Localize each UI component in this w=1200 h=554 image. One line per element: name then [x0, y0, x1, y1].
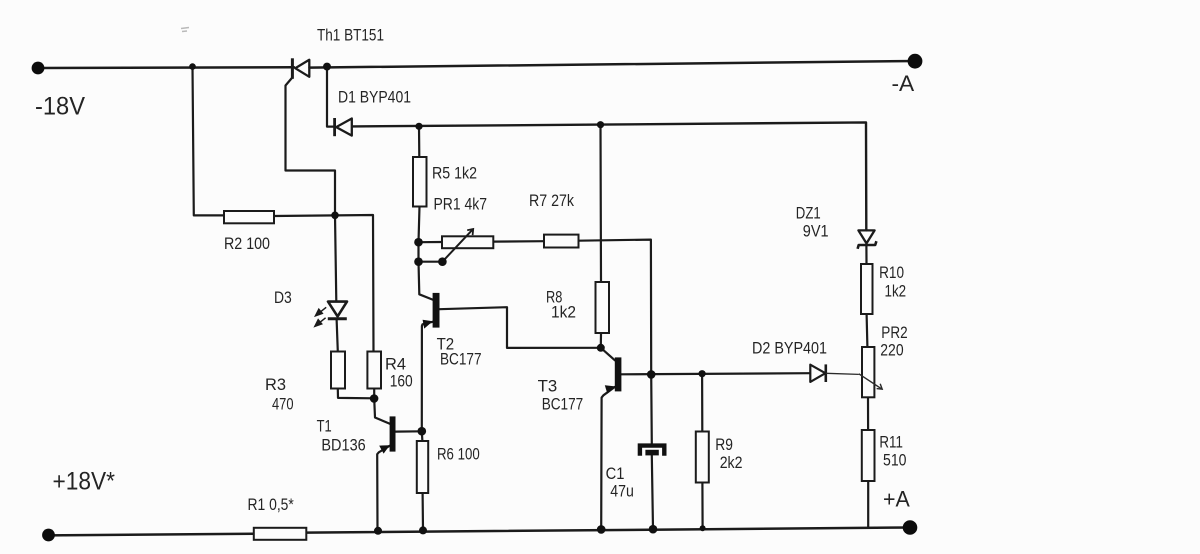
svg-text:R5 1k2: R5 1k2	[432, 164, 477, 183]
svg-text:-A: -A	[892, 71, 915, 96]
svg-text:DZ1: DZ1	[796, 204, 821, 223]
svg-text:PR1 4k7: PR1 4k7	[434, 195, 488, 214]
svg-text:1k2: 1k2	[551, 303, 576, 322]
svg-text:470: 470	[272, 395, 294, 414]
svg-text:R10: R10	[879, 263, 904, 282]
svg-text:47u: 47u	[610, 482, 634, 501]
svg-text:2k2: 2k2	[720, 453, 743, 472]
svg-text:PR2: PR2	[881, 323, 907, 342]
svg-text:D2 BYP401: D2 BYP401	[752, 339, 827, 358]
svg-text:220: 220	[880, 341, 903, 360]
svg-text:510: 510	[883, 451, 907, 470]
svg-text:C1: C1	[606, 464, 625, 483]
svg-text:Th1 BT151: Th1 BT151	[317, 26, 384, 45]
svg-text:R9: R9	[715, 435, 733, 454]
svg-text:T1: T1	[317, 417, 332, 436]
svg-text:160: 160	[390, 372, 413, 391]
svg-text:R6 100: R6 100	[437, 445, 480, 464]
svg-text:BD136: BD136	[321, 436, 365, 455]
svg-text:R3: R3	[265, 375, 286, 394]
svg-text:1k2: 1k2	[885, 282, 907, 301]
svg-text:BC177: BC177	[440, 350, 482, 369]
svg-text:D1 BYP401: D1 BYP401	[338, 88, 411, 107]
svg-text:R2 100: R2 100	[224, 234, 270, 253]
svg-text:+18V*: +18V*	[53, 468, 116, 496]
svg-text:R11: R11	[879, 433, 903, 452]
svg-text:9V1: 9V1	[803, 222, 829, 241]
svg-text:T3: T3	[538, 377, 558, 396]
svg-text:R7 27k: R7 27k	[529, 191, 574, 210]
svg-text:R1 0,5*: R1 0,5*	[248, 495, 295, 514]
svg-text:BC177: BC177	[542, 395, 584, 414]
svg-text:+A: +A	[883, 487, 910, 512]
svg-text:D3: D3	[274, 288, 292, 307]
svg-text:-18V: -18V	[35, 93, 85, 121]
